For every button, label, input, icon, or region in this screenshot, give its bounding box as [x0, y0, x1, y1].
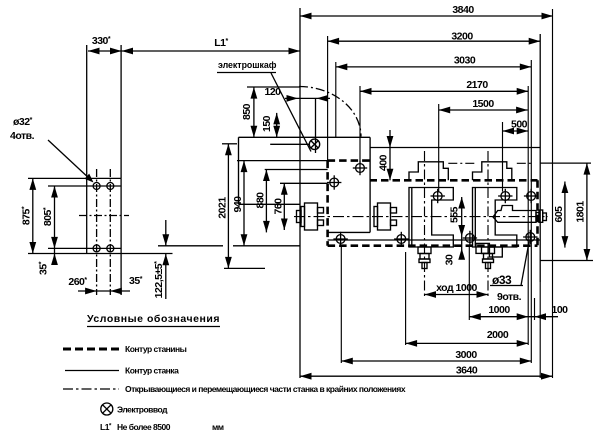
svg-text:1500: 1500	[472, 98, 494, 110]
arrows 122.5	[162, 234, 169, 246]
carriage 2 center line	[487, 151, 489, 297]
svg-text:940: 940	[232, 196, 244, 213]
ф33 leader	[521, 242, 529, 286]
witness 1801 top	[540, 162, 591, 164]
headstock bottom edge	[328, 231, 371, 233]
arrows 2000	[406, 340, 418, 347]
plate bottom edge with witness extensions	[28, 253, 173, 255]
dim 2170 line	[360, 90, 528, 92]
svg-text:100: 100	[551, 304, 568, 316]
witness for 330 left	[86, 45, 88, 178]
bed left edge	[326, 161, 329, 246]
legend machine contour sample	[65, 370, 119, 372]
dim 555/30 line	[461, 197, 463, 258]
arrows 330	[88, 48, 100, 55]
dim 2021 line	[227, 144, 229, 269]
arrows 555	[458, 197, 465, 209]
carriage 1 center line	[424, 151, 426, 297]
bottom holes line	[48, 247, 121, 249]
dim 940 line	[243, 161, 245, 246]
svg-text:электрошкаф: электрошкаф	[218, 60, 277, 70]
svg-text:Контур станины: Контур станины	[125, 344, 187, 354]
witness 940 top / bed top extension	[237, 160, 328, 162]
carriage 1 top block	[409, 162, 448, 181]
dim 150 line	[276, 113, 278, 137]
arrows L1	[122, 48, 134, 55]
svg-text:3030: 3030	[454, 55, 476, 67]
headstock right edge	[369, 137, 371, 232]
svg-text:120: 120	[264, 86, 281, 98]
svg-text:Контур станка: Контур станка	[125, 366, 179, 376]
hole column center line left	[96, 169, 98, 295]
arrows 940	[241, 161, 248, 173]
arrows 500	[503, 128, 515, 135]
machine top edge left part	[239, 136, 371, 138]
dim 760 line	[283, 183, 285, 230]
machine left edge	[299, 8, 301, 378]
anchor hole bottom-right	[107, 245, 114, 252]
svg-text:880: 880	[255, 192, 267, 209]
arrows 760	[281, 183, 288, 195]
dim 122.5 lower line	[165, 254, 167, 299]
svg-text:850: 850	[241, 103, 253, 120]
arrows 605	[562, 182, 569, 194]
dim 850 line	[253, 87, 255, 137]
arrows 805	[51, 186, 58, 198]
svg-text:3000: 3000	[455, 349, 477, 361]
plate right edge witness below	[120, 254, 122, 296]
svg-text:760: 760	[273, 198, 285, 215]
svg-text:1801: 1801	[575, 201, 587, 223]
dim 1801 line	[586, 163, 588, 260]
arrows 3030	[336, 64, 348, 71]
arrows ход 1000	[425, 291, 437, 298]
dim 122.5 upper line	[165, 220, 167, 246]
electro input leader line	[270, 143, 309, 145]
arrow 100	[535, 313, 547, 320]
электрошкаф leader slant	[271, 73, 311, 152]
witness cabinet axis vertical	[315, 98, 317, 153]
carriage 2 top block	[473, 162, 512, 181]
bed bottom edge	[328, 244, 538, 247]
anchor hole top-left	[93, 183, 100, 190]
svg-text:4отв.: 4отв.	[10, 130, 35, 142]
dim 2000 line	[406, 342, 529, 344]
dim 875 line	[32, 178, 34, 253]
carriage 1 anchor bolt	[418, 247, 431, 254]
arrows 260	[85, 288, 97, 295]
anchor hole top-right	[107, 183, 114, 190]
bed top edge right	[370, 179, 538, 182]
arrows 150	[273, 113, 280, 125]
dim 605 line	[564, 182, 566, 248]
arrows 3840	[300, 13, 312, 20]
arrows 880	[263, 170, 270, 182]
witness door top	[247, 86, 300, 88]
svg-text:3640: 3640	[456, 365, 478, 377]
svg-text:Электроввод: Электроввод	[117, 405, 168, 415]
witness 760 top	[280, 182, 328, 184]
arrows 2021	[225, 144, 232, 156]
dim 120 line	[285, 97, 330, 99]
arrows 1801	[584, 163, 591, 175]
dim 880 line	[265, 170, 267, 233]
machine top edge right part	[370, 147, 540, 149]
top holes line	[48, 185, 121, 187]
arrows 30	[458, 248, 465, 259]
leader ф32 to hole	[48, 140, 92, 181]
dim 3640 line	[300, 375, 553, 377]
plate horizontal center line	[79, 215, 129, 217]
svg-text:2021: 2021	[217, 197, 229, 219]
dim 3840 line	[300, 15, 553, 17]
carriage 2 body	[473, 188, 517, 248]
bed top edge left	[328, 159, 370, 162]
dim 330 / L1 line	[88, 50, 300, 52]
dim ход 1000 line	[425, 294, 489, 296]
svg-text:9отв.: 9отв.	[497, 291, 522, 303]
dim 805 line	[54, 186, 56, 264]
svg-text:1000: 1000	[488, 304, 510, 316]
door swing arc	[299, 87, 361, 137]
arrows 120 outside	[287, 95, 299, 102]
dim 3000 line	[341, 360, 531, 362]
witness for 330 right	[120, 45, 122, 178]
carriage 2 foot steps	[476, 243, 502, 257]
svg-text:122,5±5*: 122,5±5*	[153, 261, 165, 298]
cabinet left edge	[238, 137, 240, 204]
arrows 3200	[328, 38, 340, 45]
svg-text:30: 30	[444, 254, 456, 265]
dim 1500 line	[439, 109, 528, 111]
machine bottom line	[328, 239, 541, 241]
machine right edge	[539, 34, 541, 282]
electro input symbol on machine	[309, 139, 319, 149]
plate top edge with left witness extension	[28, 177, 121, 179]
svg-text:2000: 2000	[487, 329, 509, 341]
svg-text:Условные обозначения: Условные обозначения	[87, 313, 219, 325]
svg-text:150: 150	[261, 115, 273, 132]
dim 1000/100 line	[469, 316, 558, 318]
arrows 2170	[360, 88, 372, 95]
carriage 2 anchor bolt	[482, 247, 495, 254]
arrows 1500	[439, 107, 451, 114]
arrows 850	[251, 87, 258, 99]
witness 1801 bottom	[540, 260, 593, 262]
svg-text:ход 1000: ход 1000	[436, 282, 477, 294]
aux center line between top blocks	[448, 162, 474, 164]
ф33 underline	[490, 285, 523, 287]
legend moving parts sample	[63, 388, 119, 390]
bed right edge	[536, 180, 539, 245]
plate right edge	[120, 178, 122, 253]
bottom extension line left	[158, 245, 223, 247]
электрошкаф leader underline	[217, 72, 276, 74]
arrow 35 lower	[51, 254, 58, 266]
dim 400 line	[389, 130, 391, 180]
legend bed contour sample	[63, 348, 119, 351]
hole column center line right	[109, 169, 111, 295]
svg-text:3200: 3200	[451, 31, 473, 43]
dim 500 line	[503, 130, 529, 132]
svg-text:3840: 3840	[452, 4, 474, 16]
svg-text:500: 500	[511, 119, 528, 131]
arrows 400	[387, 136, 394, 148]
dim 3200 line	[328, 40, 541, 42]
svg-text:2170: 2170	[466, 79, 488, 91]
legend electro symbol	[101, 403, 113, 415]
witness 880 top	[265, 169, 328, 171]
svg-text:555: 555	[449, 206, 461, 223]
svg-text:605: 605	[553, 206, 565, 223]
arrows 1000	[469, 313, 481, 320]
arrows 875	[29, 178, 36, 190]
svg-text:400: 400	[378, 154, 390, 171]
anchor hole bottom-left	[93, 245, 100, 252]
dim 3030 line	[336, 66, 532, 68]
arrows 3640	[300, 373, 312, 380]
cabinet bottom edge	[239, 203, 301, 205]
dim 260/35 line	[78, 290, 130, 292]
plate left edge	[86, 178, 88, 253]
carriage 1 body	[409, 188, 453, 248]
arrows 3000	[341, 358, 353, 365]
2021 base tick	[224, 267, 265, 269]
2021 top tick	[222, 143, 237, 145]
svg-text:Открывающиеся и перемещающиеся: Открывающиеся и перемещающиеся части ста…	[125, 384, 406, 394]
